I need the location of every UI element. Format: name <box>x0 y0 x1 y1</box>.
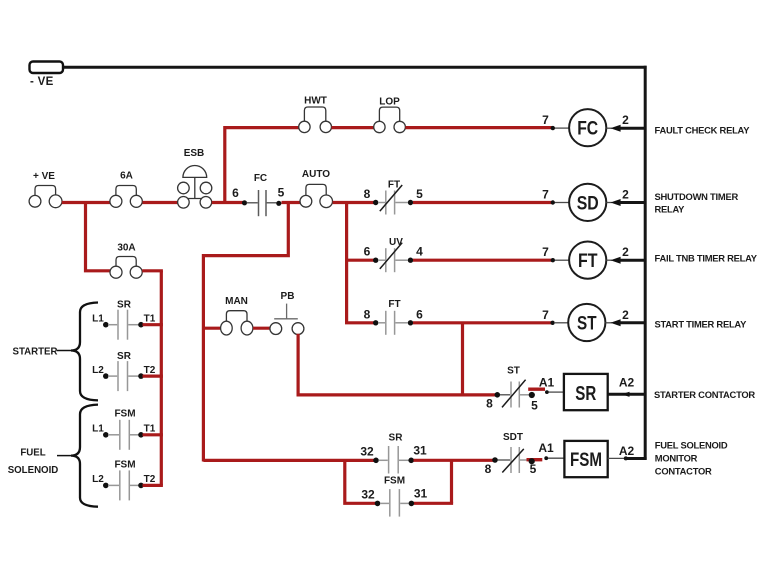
wire FSM feeder row horizontal <box>203 459 376 462</box>
svg-text:L1: L1 <box>92 314 104 325</box>
svg-text:6: 6 <box>364 245 371 259</box>
svg-text:6: 6 <box>416 307 423 321</box>
svg-text:31: 31 <box>413 443 427 457</box>
wire FSM T1 to red bus <box>143 433 163 436</box>
wire negative bus vertical <box>644 66 647 460</box>
svg-text:8: 8 <box>364 307 371 321</box>
svg-text:8: 8 <box>485 462 492 476</box>
node 7 ST row <box>542 308 555 325</box>
svg-text:CONTACTOR: CONTACTOR <box>655 466 712 477</box>
svg-text:5: 5 <box>416 187 423 201</box>
wire PB down to starter contactor row <box>298 334 497 395</box>
svg-text:FC: FC <box>577 118 598 140</box>
svg-text:PB: PB <box>281 291 295 302</box>
svg-text:T1: T1 <box>144 424 156 435</box>
contact SR main pole L2-T2 <box>92 351 156 391</box>
wire 6A to ESB <box>143 201 178 204</box>
node 8 SR contactor row <box>486 392 500 411</box>
wire bus to FC coil with arrow, pin 2 <box>606 113 646 132</box>
wire junction AUTO node down to UV and FT rows <box>347 203 375 323</box>
svg-text:FUEL SOLENOID: FUEL SOLENOID <box>655 439 728 450</box>
svg-text:SHUTDOWN TIMER: SHUTDOWN TIMER <box>655 191 739 202</box>
wire stub to UV row <box>347 259 375 262</box>
contact FT normally-closed (SD row) <box>378 180 408 215</box>
wire T2 to red bus <box>143 375 163 378</box>
wire main line +VE to 6A <box>62 201 110 204</box>
svg-text:7: 7 <box>542 113 549 127</box>
node 32 FSM aux <box>361 487 380 506</box>
contact FT normally-open (ST row) <box>378 299 408 335</box>
fuse +VE supply <box>29 171 62 208</box>
contact ST normally-closed (SR row) <box>500 366 529 408</box>
wire riser to HWT row <box>225 128 299 203</box>
node 4 FT row <box>408 245 423 263</box>
node 5 SD row <box>408 187 423 205</box>
svg-text:FT: FT <box>388 180 400 191</box>
node 7 SD row <box>542 188 555 205</box>
svg-text:2: 2 <box>622 245 629 259</box>
wire node 5 to AUTO <box>282 201 301 204</box>
contact FSM main pole L1-T1 <box>92 409 156 450</box>
svg-text:31: 31 <box>414 486 428 500</box>
wire branch down left to FSM aux <box>345 460 376 503</box>
node 7 FT row <box>542 245 555 262</box>
wire FT row to relay <box>413 259 553 262</box>
wire SR box to bus with arrow, terminal A2 <box>608 375 646 397</box>
svg-text:2: 2 <box>622 308 629 322</box>
wire bus to ST coil with arrow, pin 2 <box>605 308 646 327</box>
svg-text:ST: ST <box>577 312 597 334</box>
node 31 FSM aux <box>409 486 428 506</box>
svg-text:8: 8 <box>486 397 493 411</box>
svg-text:L1: L1 <box>92 424 104 435</box>
svg-text:T1: T1 <box>144 314 156 325</box>
svg-text:FSM: FSM <box>114 409 135 420</box>
svg-text:A1: A1 <box>539 376 555 390</box>
terminal A1 SR <box>539 376 564 395</box>
wire ESB to node 6 <box>212 201 245 204</box>
contact FSM auxiliary 32-31 <box>380 476 409 517</box>
svg-text:FAIL TNB TIMER RELAY: FAIL TNB TIMER RELAY <box>655 253 758 264</box>
svg-text:SDT: SDT <box>503 432 523 443</box>
node 6 main <box>232 186 247 205</box>
svg-text:6A: 6A <box>120 171 133 182</box>
svg-text:ESB: ESB <box>184 148 205 159</box>
svg-text:RELAY: RELAY <box>655 204 686 215</box>
label FUEL SOLENOID <box>8 448 59 477</box>
svg-text:5: 5 <box>531 399 538 413</box>
svg-text:7: 7 <box>542 308 549 322</box>
svg-text:STARTER CONTACTOR: STARTER CONTACTOR <box>654 389 755 400</box>
svg-text:- VE: - VE <box>30 76 54 88</box>
wire AUTO to node 8 <box>333 201 375 204</box>
wire branch down right from 31 <box>450 460 453 503</box>
wire HWT to LOP <box>332 126 374 129</box>
contactor coil SR box <box>564 374 608 410</box>
node 6 ST row <box>408 307 423 325</box>
wire drop ST row to SR contactor row <box>461 323 464 395</box>
contact SR main pole L1-T1 <box>92 300 156 340</box>
node 31 SR aux <box>408 443 427 463</box>
wire drop from node 5 to MAN riser <box>203 203 288 462</box>
label fuel solenoid monitor contactor <box>655 439 728 476</box>
svg-text:6: 6 <box>232 186 239 200</box>
svg-text:MONITOR: MONITOR <box>655 453 698 464</box>
switch AUTO <box>300 169 333 208</box>
svg-text:32: 32 <box>361 487 375 501</box>
relay coil ST <box>555 304 605 341</box>
svg-text:5: 5 <box>278 186 285 200</box>
svg-text:A2: A2 <box>619 375 635 389</box>
svg-text:A2: A2 <box>619 444 635 458</box>
fuse 30A <box>110 243 142 279</box>
wire MAN to PB <box>253 327 270 330</box>
node 8 ST row <box>364 307 379 325</box>
relay coil SD <box>555 184 606 221</box>
wire red bus vertical (starter/fuel contacts feed) <box>160 271 163 486</box>
contact SDT normally-closed (FSM row) <box>498 432 527 473</box>
wire branch down to 30A <box>86 203 111 271</box>
contact SR auxiliary 32-31 <box>379 433 409 474</box>
svg-text:FC: FC <box>254 173 267 184</box>
wire bus to SD coil with arrow, pin 2 <box>606 187 646 206</box>
wire bus to FT coil with arrow, pin 2 <box>606 245 646 264</box>
label shutdown timer relay <box>655 191 739 215</box>
wire FSM T2 to red bus <box>143 484 163 487</box>
wire 30A to red bus <box>142 269 163 272</box>
svg-text:FAULT CHECK RELAY: FAULT CHECK RELAY <box>655 125 751 136</box>
node 5 SR row with red blade <box>528 389 545 412</box>
node 32 SR aux <box>360 444 378 463</box>
svg-text:+ VE: + VE <box>33 171 55 182</box>
svg-text:FT: FT <box>388 299 400 310</box>
wire FSM box to bus, terminal A2 <box>608 444 647 460</box>
svg-text:FUEL: FUEL <box>20 448 45 459</box>
svg-text:5: 5 <box>530 462 537 476</box>
wire stub to MAN <box>203 327 220 330</box>
contactor coil FSM box <box>564 441 607 477</box>
svg-text:MAN: MAN <box>225 296 248 307</box>
terminal A1 FSM <box>538 441 564 460</box>
svg-text:T2: T2 <box>144 365 156 376</box>
brace fuel solenoid group <box>57 405 98 507</box>
node 7 FC row <box>542 113 555 130</box>
svg-text:START TIMER RELAY: START TIMER RELAY <box>655 318 748 329</box>
svg-text:SR: SR <box>389 433 404 444</box>
svg-text:HWT: HWT <box>304 96 327 107</box>
wire ST row to relay <box>413 321 553 324</box>
svg-text:A1: A1 <box>538 441 554 455</box>
svg-text:UV: UV <box>389 237 403 248</box>
svg-text:FSM: FSM <box>570 449 602 471</box>
svg-text:2: 2 <box>622 113 629 127</box>
svg-text:2: 2 <box>622 187 629 201</box>
battery negative terminal -VE <box>30 62 64 89</box>
node 5 SDT row with red blade <box>527 458 543 476</box>
svg-text:7: 7 <box>542 188 549 202</box>
svg-text:SD: SD <box>577 192 599 214</box>
svg-text:L2: L2 <box>92 474 104 485</box>
node 6 FT row <box>364 245 379 263</box>
svg-text:LOP: LOP <box>379 97 400 108</box>
svg-text:ST: ST <box>507 366 520 377</box>
switch MAN <box>221 296 253 335</box>
wire 31 to SDT node 8 <box>414 459 496 462</box>
brace starter group <box>57 303 98 401</box>
wire LOP to FC relay <box>405 126 552 129</box>
svg-text:SR: SR <box>117 351 132 362</box>
svg-text:L2: L2 <box>92 365 104 376</box>
node 8 SD row <box>364 187 379 205</box>
svg-text:30A: 30A <box>117 243 135 254</box>
svg-text:32: 32 <box>360 444 374 458</box>
svg-text:FSM: FSM <box>114 460 135 471</box>
svg-text:4: 4 <box>416 245 423 259</box>
node 5 main <box>276 186 284 206</box>
svg-text:AUTO: AUTO <box>302 169 330 180</box>
fuse 6A <box>110 171 142 208</box>
svg-text:FSM: FSM <box>384 476 405 487</box>
svg-text:7: 7 <box>542 245 549 259</box>
wire negative supply horizontal <box>64 66 647 69</box>
contact FSM main pole L2-T2 <box>92 460 156 501</box>
svg-text:SR: SR <box>117 300 132 311</box>
relay coil FC <box>555 109 606 146</box>
switch HWT (high water temperature) <box>299 96 332 133</box>
pushbutton PB <box>270 291 304 335</box>
wire SD row to relay <box>413 201 553 204</box>
svg-text:8: 8 <box>364 187 371 201</box>
svg-text:SR: SR <box>575 383 596 405</box>
relay coil FT <box>555 242 606 279</box>
svg-text:T2: T2 <box>144 474 156 485</box>
svg-text:SOLENOID: SOLENOID <box>8 465 59 476</box>
node 8 SDT row <box>485 457 498 476</box>
svg-text:STARTER: STARTER <box>12 347 57 358</box>
svg-text:FT: FT <box>578 250 598 272</box>
contact FC normally-open <box>247 173 277 216</box>
wire FSM aux 31 to branch <box>414 502 453 505</box>
emergency stop button ESB <box>178 148 212 208</box>
contact UV normally-closed (FT row) <box>378 237 408 272</box>
switch LOP (low oil pressure) <box>374 97 406 133</box>
wire T1 to red bus <box>143 323 163 326</box>
